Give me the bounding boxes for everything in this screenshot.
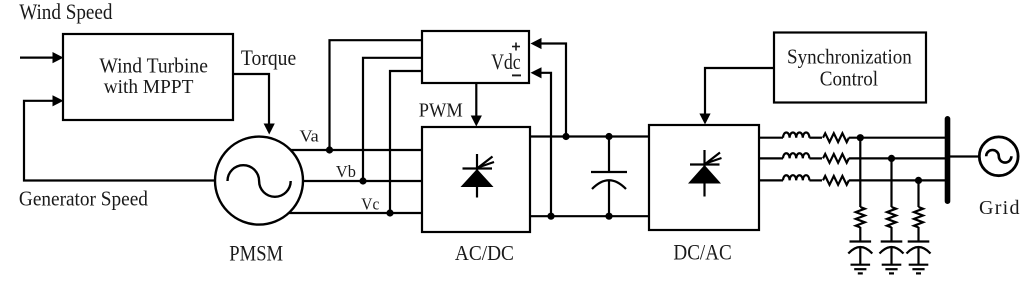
wire: wind speed input arrow: [20, 52, 64, 63]
block U2: PWM controller: [422, 31, 529, 83]
shunt branch C: resistor R6: [914, 180, 923, 241]
bus bar: grid bus: [945, 119, 951, 201]
ground: branch A: [851, 265, 871, 274]
svg-text:Synchronization: Synchronization: [787, 44, 912, 68]
wire: DC bus positive: [530, 135, 649, 137]
AC source: Grid: [979, 137, 1018, 176]
node: phase B shunt tap: [888, 155, 895, 162]
svg-text:Generator Speed: Generator Speed: [19, 186, 148, 210]
thyristor symbol in AC/DC: [461, 154, 495, 198]
capacitor C1: DC link: [591, 137, 627, 217]
wire: sync control to DC/AC: [699, 68, 774, 125]
node: Vc tap junction: [386, 209, 393, 216]
shunt branch C: capacitor C4: [907, 242, 931, 265]
node: Va tap junction: [326, 146, 333, 153]
node: capacitor top junction: [605, 133, 612, 140]
svg-text:PMSM: PMSM: [229, 241, 283, 266]
svg-text:AC/DC: AC/DC: [455, 241, 514, 265]
wire: Vc sense to PWM block: [390, 71, 422, 213]
wire: DC bus negative: [530, 215, 649, 217]
svg-text:Wind Turbine: Wind Turbine: [99, 54, 207, 78]
block U5: Synchronization Control: [774, 33, 926, 103]
svg-text:with MPPT: with MPPT: [104, 76, 194, 98]
wire: torque output to PMSM: [233, 74, 275, 135]
node: Vdc+ tap on DC bus: [562, 133, 569, 140]
node: phase A shunt tap: [857, 134, 864, 141]
svg-text:Va: Va: [300, 126, 320, 145]
node: capacitor bottom junction: [605, 213, 612, 220]
svg-text:Grid: Grid: [979, 197, 1020, 219]
wire: generator speed feedback into turbine block: [24, 95, 215, 180]
label: plus polarity: [512, 43, 520, 51]
phase A output: wire with inductor L1 and resistor R1: [759, 132, 945, 142]
svg-text:PWM: PWM: [419, 99, 463, 121]
svg-text:Wind Speed: Wind Speed: [19, 0, 112, 24]
wire: phase Va: [280, 149, 422, 151]
wire: Vb sense to PWM block: [363, 58, 422, 181]
thyristor symbol in DC/AC: [688, 150, 722, 197]
shunt branch A: resistor R4: [856, 138, 865, 242]
shunt branch B: resistor R5: [887, 158, 896, 241]
generator G1: PMSM: [215, 137, 303, 225]
wire: Vdc- sense feedback: [531, 67, 552, 216]
node: Vdc- tap on DC bus: [547, 213, 554, 220]
wire: Vdc+ sense feedback: [531, 38, 567, 137]
svg-text:Vc: Vc: [361, 195, 379, 214]
svg-text:DC/AC: DC/AC: [673, 240, 731, 265]
svg-text:Control: Control: [820, 67, 878, 91]
wire: bus to grid source: [950, 155, 979, 157]
ground: branch B: [882, 265, 902, 274]
node: Vb tap junction: [359, 177, 366, 184]
svg-text:Vdc: Vdc: [491, 49, 521, 74]
phase B output: wire with inductor L2 and resistor R2: [759, 153, 945, 163]
wire: phase Vb: [290, 180, 422, 182]
phase C output: wire with inductor L3 and resistor R3: [759, 175, 945, 185]
label: minus polarity: [512, 74, 521, 76]
block U1: Wind Turbine with MPPT: [63, 34, 233, 120]
svg-text:Vb: Vb: [336, 162, 356, 181]
block U4: DC/AC inverter: [649, 125, 759, 230]
wire: PWM gate drive to AC/DC: [471, 83, 482, 127]
node: phase C shunt tap: [915, 177, 922, 184]
wire: phase Vc: [280, 212, 422, 214]
shunt branch A: capacitor C2: [848, 242, 872, 265]
svg-text:Torque: Torque: [241, 45, 296, 70]
wire: Va sense to PWM block: [330, 40, 423, 150]
shunt branch B: capacitor C3: [880, 242, 904, 265]
block U3: AC/DC converter: [422, 127, 530, 232]
ground: branch C: [909, 265, 929, 274]
